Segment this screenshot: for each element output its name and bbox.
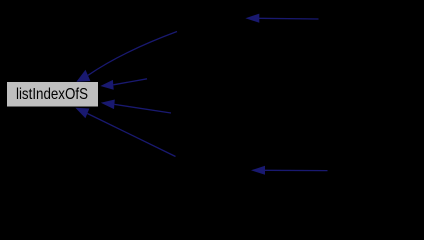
wire edge E1 (top horizontal) xyxy=(245,14,318,23)
wire edge E4 (into right edge lower) xyxy=(101,100,171,114)
wire edge E2 (curve to box top-right corner) xyxy=(76,32,177,82)
wire edge E3 (short into right edge upper) xyxy=(100,79,147,90)
wire edge E5 (long from lower right to box bottom-right corner) xyxy=(75,108,175,157)
node listIndexOfS xyxy=(7,82,99,108)
wire edge E7 (bottom horizontal) xyxy=(251,166,328,175)
svg-text:listIndexOfS: listIndexOfS xyxy=(16,86,88,103)
